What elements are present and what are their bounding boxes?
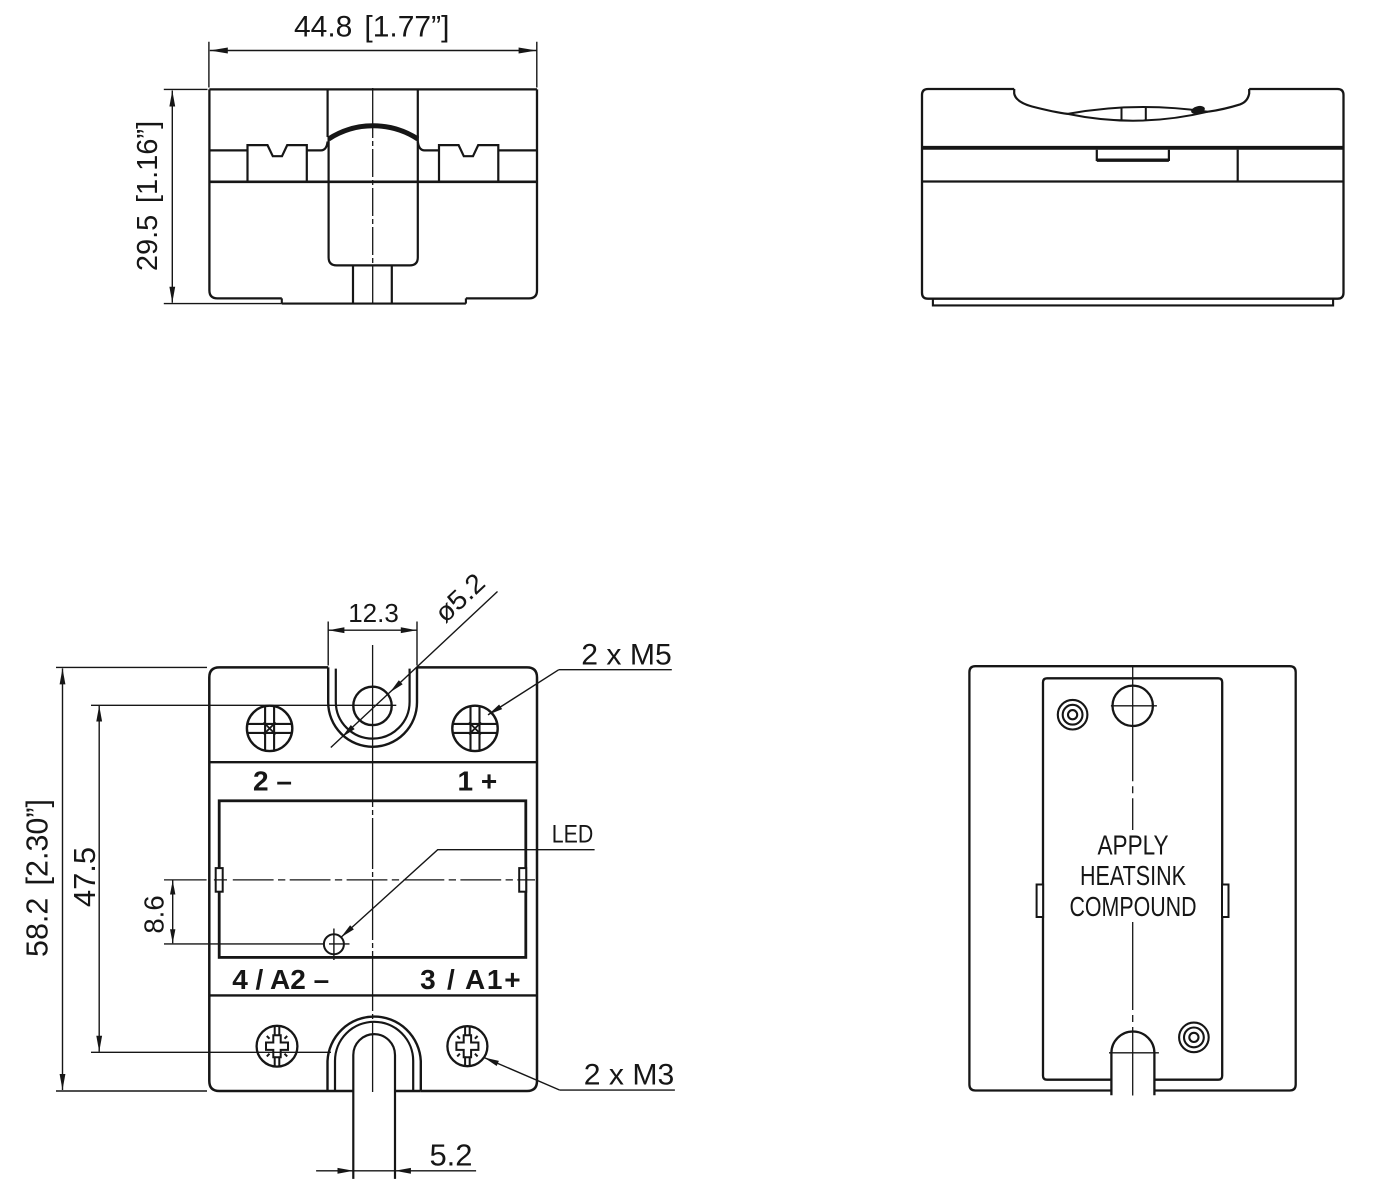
svg-text:COMPOUND: COMPOUND bbox=[1070, 891, 1197, 922]
svg-text:1 +: 1 + bbox=[458, 766, 498, 797]
svg-text:4 / A2 –: 4 / A2 – bbox=[232, 964, 329, 995]
svg-text:44.8 [1.77”]: 44.8 [1.77”] bbox=[294, 11, 449, 44]
svg-text:29.5 [1.16”]: 29.5 [1.16”] bbox=[132, 121, 164, 271]
svg-text:8.6: 8.6 bbox=[139, 895, 170, 933]
svg-text:2 –: 2 – bbox=[253, 766, 292, 797]
svg-text:5.2: 5.2 bbox=[429, 1138, 472, 1173]
svg-text:12.3: 12.3 bbox=[348, 598, 399, 628]
svg-text:LED: LED bbox=[552, 821, 594, 849]
svg-text:2 x M3: 2 x M3 bbox=[584, 1059, 675, 1092]
svg-text:HEATSINK: HEATSINK bbox=[1080, 860, 1186, 891]
svg-text:3 / A1+: 3 / A1+ bbox=[420, 964, 520, 995]
svg-text:2 x M5: 2 x M5 bbox=[581, 638, 672, 671]
svg-text:APPLY: APPLY bbox=[1098, 829, 1169, 860]
svg-text:58.2 [2.30”]: 58.2 [2.30”] bbox=[21, 799, 55, 957]
svg-text:47.5: 47.5 bbox=[67, 847, 102, 907]
